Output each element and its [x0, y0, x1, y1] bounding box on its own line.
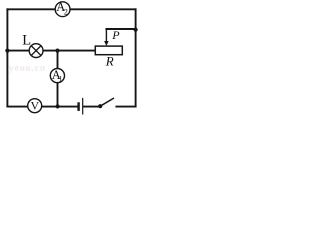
node junction lamp wire / A1 branch — [55, 49, 59, 53]
battery positive plate (long) — [82, 98, 84, 115]
wire lamp left — [7, 50, 29, 52]
svg-text:R: R — [105, 53, 114, 68]
wire left rail — [6, 9, 8, 106]
switch pivot — [98, 104, 102, 108]
battery negative plate (short) — [77, 102, 79, 111]
wire A1 branch upper — [57, 51, 59, 69]
lamp L — [29, 44, 43, 58]
svg-text:L: L — [22, 33, 31, 49]
svg-text:P: P — [111, 28, 120, 42]
svg-text:1: 1 — [59, 74, 63, 83]
wire right rail — [135, 9, 137, 106]
wire voltmeter to battery — [42, 106, 78, 108]
svg-text:2: 2 — [64, 7, 68, 16]
wire top-right segment — [70, 8, 136, 10]
wire A1 branch lower — [57, 83, 59, 107]
rheostat wiper arrow — [104, 29, 109, 46]
wire wiper horizontal to right rail — [106, 28, 135, 30]
svg-text:yeoo.co: yeoo.co — [9, 63, 46, 74]
wire bottom corner to voltmeter — [7, 106, 28, 108]
wire battery to switch — [83, 106, 100, 108]
switch blade — [100, 98, 114, 106]
node junction A1 branch / bottom wire — [56, 104, 60, 108]
node junction wiper / right rail — [134, 28, 138, 32]
node junction left rail / lamp — [5, 49, 9, 53]
rheostat R body — [95, 46, 122, 55]
wire lamp to rheostat — [43, 50, 95, 52]
voltmeter V — [28, 99, 42, 113]
wire switch to bottom-right corner — [116, 106, 135, 108]
wire top-left segment — [7, 8, 55, 10]
ammeter A2 — [55, 0, 70, 16]
svg-text:V: V — [31, 99, 40, 113]
ammeter A1 — [50, 68, 64, 84]
